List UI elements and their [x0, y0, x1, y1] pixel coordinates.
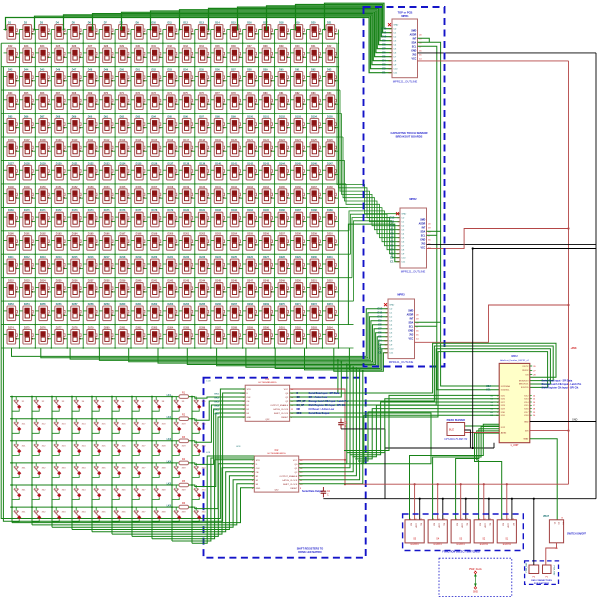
- svg-text:SMD: SMD: [408, 311, 413, 313]
- svg-text:UC8: UC8: [236, 446, 241, 448]
- svg-text:CAPACITIVE TOUCH SENSOR: CAPACITIVE TOUCH SENSOR: [390, 131, 427, 135]
- svg-text:A0/BZ: A0/BZ: [501, 431, 507, 434]
- svg-text:TOP or PCB: TOP or PCB: [398, 11, 413, 15]
- svg-text:GND: GND: [393, 25, 398, 27]
- svg-text:CLK: CLK: [247, 397, 252, 399]
- svg-text:EG2219: EG2219: [434, 544, 443, 546]
- svg-text:CPT-2016-75-SMT-TR: CPT-2016-75-SMT-TR: [444, 439, 467, 441]
- svg-text:NO: NO: [432, 523, 434, 526]
- svg-text:COM: COM: [415, 523, 417, 528]
- svg-text:GND: GND: [572, 418, 578, 421]
- svg-text:IO1/TX: IO1/TX: [522, 366, 529, 368]
- svg-text:COM: COM: [461, 523, 463, 528]
- svg-text:MR: MR: [297, 409, 301, 411]
- svg-text:1_UNIT: 1_UNIT: [510, 444, 519, 447]
- svg-text:IO20/SCL: IO20/SCL: [501, 390, 511, 392]
- svg-text:3V3: 3V3: [412, 54, 417, 56]
- svg-text:KK1: KK1: [215, 393, 220, 395]
- svg-text:MPR3: MPR3: [397, 293, 405, 297]
- svg-text:MPR121_OUTLINE: MPR121_OUTLINE: [389, 360, 414, 364]
- svg-text:VCC: VCC: [408, 338, 413, 340]
- svg-text:KK2: KK2: [215, 397, 220, 399]
- svg-text:Ctl Reset = Active Low: Ctl Reset = Active Low: [309, 408, 335, 411]
- svg-text:STR_CP: STR_CP: [297, 401, 307, 403]
- svg-text:+3V3: +3V3: [571, 347, 578, 350]
- svg-text:GND: GND: [401, 214, 406, 216]
- svg-text:KK3: KK3: [215, 401, 220, 403]
- svg-text:C1: C1: [378, 351, 382, 355]
- svg-text:GND: GND: [389, 305, 394, 307]
- svg-text:Shift Register Clk Input - SPI: Shift Register Clk Input - SPI Clk: [309, 404, 346, 407]
- svg-text:EG2219: EG2219: [411, 544, 420, 546]
- svg-text:HCT4094BD4R2G: HCT4094BD4R2G: [258, 382, 276, 384]
- svg-text:IO28: IO28: [501, 405, 505, 407]
- svg-text:ADDR: ADDR: [410, 33, 417, 36]
- svg-text:SMD: SMD: [420, 220, 425, 222]
- svg-text:LK2: LK2: [167, 417, 172, 419]
- svg-text:ADDR: ADDR: [419, 222, 426, 225]
- svg-text:IO31: IO31: [501, 415, 505, 417]
- svg-text:KK6: KK6: [215, 413, 220, 415]
- svg-text:OE: OE: [297, 397, 301, 399]
- svg-text:LK5: LK5: [167, 483, 172, 485]
- svg-text:SWITCH ON/OFF: SWITCH ON/OFF: [567, 533, 587, 536]
- svg-text:GND: GND: [524, 421, 529, 423]
- svg-text:STR: STR: [256, 460, 261, 462]
- svg-text:SCL: SCL: [412, 46, 417, 48]
- svg-text:IO13: IO13: [524, 399, 528, 401]
- svg-text:IC1: IC1: [266, 378, 270, 381]
- svg-text:RESET: RESET: [290, 488, 298, 490]
- svg-text:BUZ: BUZ: [449, 429, 454, 432]
- svg-text:GND: GND: [256, 488, 261, 490]
- svg-text:IO3: IO3: [525, 374, 528, 376]
- svg-text:PWR_FLAG: PWR_FLAG: [469, 568, 482, 571]
- svg-text:Storage Latch Clk Input - Latc: Storage Latch Clk Input - Latch Pin: [309, 400, 349, 403]
- svg-text:ADDR: ADDR: [407, 313, 414, 316]
- svg-text:VCC: VCC: [420, 247, 425, 249]
- svg-text:EG2219: EG2219: [480, 544, 489, 546]
- svg-text:GND: GND: [411, 50, 416, 52]
- svg-text:VCC: VCC: [411, 58, 416, 60]
- svg-text:PIEZO BUZZER: PIEZO BUZZER: [447, 419, 466, 422]
- svg-text:INT: INT: [410, 318, 414, 320]
- svg-text:C1: C1: [382, 71, 386, 75]
- svg-text:COM: COM: [484, 523, 486, 528]
- svg-text:GND: GND: [473, 592, 478, 594]
- svg-text:INT: INT: [413, 38, 417, 40]
- svg-text:VBAT: VBAT: [543, 515, 550, 518]
- svg-text:OUTPUT_ENABLE: OUTPUT_ENABLE: [270, 404, 289, 407]
- svg-text:MOSI/IO19: MOSI/IO19: [519, 380, 528, 382]
- svg-text:FUNCTION SELECT SWITCHES: FUNCTION SELECT SWITCHES: [442, 551, 480, 554]
- svg-text:SDA: SDA: [408, 321, 413, 324]
- svg-text:SCL: SCL: [486, 390, 491, 392]
- svg-text:PAD CONNECTORS: PAD CONNECTORS: [531, 579, 552, 582]
- svg-text:SDA: SDA: [411, 41, 416, 44]
- svg-text:Serial Data Output: Serial Data Output: [309, 412, 330, 415]
- svg-text:IO22/SDA: IO22/SDA: [501, 385, 511, 388]
- svg-text:SHIFT_CLOCK: SHIFT_CLOCK: [283, 484, 298, 486]
- svg-text:LK3: LK3: [167, 439, 172, 441]
- svg-text:Shift Register Clk Input - SPI: Shift Register Clk Input - SPI Clk: [542, 386, 579, 389]
- svg-text:MPR121_OUTLINE: MPR121_OUTLINE: [393, 80, 418, 84]
- svg-text:IO26: IO26: [501, 399, 505, 401]
- svg-text:3V3: 3V3: [409, 334, 414, 336]
- svg-text:COM: COM: [438, 523, 440, 528]
- svg-text:PWR_PAD: PWR_PAD: [552, 566, 555, 576]
- svg-text:EG2219: EG2219: [503, 544, 512, 546]
- svg-text:IO29: IO29: [501, 409, 505, 411]
- svg-text:KK4: KK4: [215, 404, 220, 407]
- svg-text:INT: INT: [422, 227, 426, 229]
- svg-text:MPR1: MPR1: [401, 14, 409, 18]
- svg-text:FOR BATTERY: FOR BATTERY: [534, 582, 550, 585]
- svg-text:IO16: IO16: [524, 409, 528, 411]
- svg-text:C1: C1: [390, 260, 394, 264]
- svg-text:SDA: SDA: [486, 385, 491, 388]
- svg-text:SCL: SCL: [421, 235, 426, 237]
- svg-text:DRIVE LED MATRIX: DRIVE LED MATRIX: [298, 551, 322, 554]
- svg-text:IC2: IC2: [275, 449, 279, 452]
- svg-text:EG2219: EG2219: [457, 544, 466, 546]
- svg-text:KK5: KK5: [215, 409, 220, 411]
- svg-text:MPR121_OUTLINE: MPR121_OUTLINE: [401, 270, 426, 274]
- svg-text:NO: NO: [502, 523, 504, 526]
- svg-text:MISO/IO21: MISO/IO21: [519, 384, 528, 386]
- svg-text:RESET: RESET: [281, 417, 289, 419]
- svg-text:LATCH_CLOCK: LATCH_CLOCK: [273, 408, 289, 411]
- svg-text:LATCH_CLOCK: LATCH_CLOCK: [282, 479, 298, 482]
- svg-text:LK1: LK1: [167, 395, 172, 397]
- svg-text:GND: GND: [420, 239, 425, 241]
- svg-text:SDO: SDO: [297, 413, 302, 415]
- svg-text:CLK: CLK: [256, 468, 261, 470]
- svg-text:SMD: SMD: [411, 31, 416, 33]
- svg-text:IO27: IO27: [501, 402, 505, 404]
- svg-text:VBAT: VBAT: [523, 438, 529, 441]
- svg-text:Serial Data Input - SPI Data: Serial Data Input - SPI Data: [309, 392, 340, 395]
- svg-text:IO15: IO15: [524, 405, 528, 407]
- svg-text:IO12: IO12: [524, 395, 528, 397]
- svg-text:COM: COM: [507, 523, 509, 528]
- svg-text:SDA: SDA: [420, 230, 425, 233]
- svg-text:IO18: IO18: [524, 415, 528, 417]
- svg-text:SH_CP: SH_CP: [297, 405, 305, 407]
- svg-text:AdaFruit_Feather_ESP32_v2: AdaFruit_Feather_ESP32_v2: [500, 359, 529, 362]
- svg-text:SCK/IO5: SCK/IO5: [521, 387, 528, 389]
- svg-text:STR: STR: [247, 389, 252, 391]
- svg-text:HCT4094BD4R2G: HCT4094BD4R2G: [267, 453, 285, 455]
- svg-text:VCC: VCC: [284, 389, 289, 391]
- svg-text:SCL: SCL: [409, 326, 414, 328]
- svg-text:LK4: LK4: [167, 460, 172, 463]
- svg-text:IO25: IO25: [501, 395, 505, 397]
- svg-text:IO30: IO30: [501, 412, 505, 414]
- svg-text:NO: NO: [456, 523, 458, 526]
- svg-text:IO17: IO17: [524, 412, 528, 414]
- svg-text:3V3: 3V3: [421, 243, 426, 245]
- svg-text:OE = Active Low: OE = Active Low: [309, 396, 328, 399]
- svg-text:LK6: LK6: [167, 506, 172, 508]
- svg-text:BREAKOUT BOARDS: BREAKOUT BOARDS: [396, 135, 423, 139]
- svg-text:OUTPUT_ENABLE: OUTPUT_ENABLE: [279, 475, 298, 478]
- svg-text:MPR2: MPR2: [409, 197, 417, 201]
- svg-text:GND: GND: [408, 330, 413, 332]
- svg-text:VCC: VCC: [293, 460, 298, 462]
- svg-text:PWR_PAD: PWR_PAD: [525, 562, 528, 572]
- svg-text:SHIFT_CLOCK: SHIFT_CLOCK: [274, 413, 289, 415]
- svg-text:MCU: MCU: [512, 354, 518, 358]
- svg-text:Serial Data Output: Serial Data Output: [302, 490, 323, 493]
- svg-text:RX/IO2: RX/IO2: [522, 370, 528, 372]
- svg-text:IO14: IO14: [524, 402, 528, 404]
- svg-text:GND: GND: [247, 417, 252, 419]
- svg-text:NO: NO: [409, 523, 411, 526]
- svg-text:NO: NO: [479, 523, 481, 526]
